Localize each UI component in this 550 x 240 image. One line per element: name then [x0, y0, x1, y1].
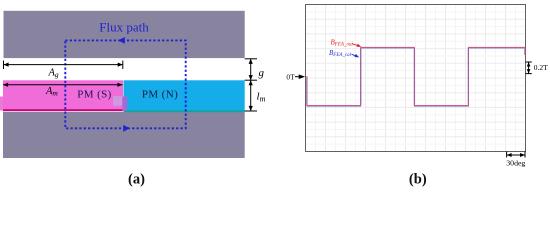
Ag dimension arrow [4, 61, 123, 70]
svg-text:30deg: 30deg [506, 158, 525, 167]
svg-text:g: g [259, 67, 265, 79]
0.2T ticks [526, 62, 532, 74]
PM (S) bottom edge line [3, 109, 123, 111]
plot grid [306, 5, 526, 152]
0.2T arrow [528, 62, 530, 74]
stator top block [4, 11, 245, 58]
plot frame [306, 5, 526, 152]
PM (N) bottom edge line [124, 110, 245, 112]
svg-text:0T: 0T [286, 72, 295, 81]
waveform vertical-edge blend overlay [307, 49, 469, 105]
svg-text:Ag: Ag [48, 67, 59, 79]
FEA waveform (red) [307, 47, 525, 105]
30deg ticks [507, 152, 525, 158]
Am dimension arrow [3, 84, 123, 86]
30deg arrow [507, 154, 525, 156]
svg-text:PM (S): PM (S) [77, 88, 112, 100]
stator bottom block [3, 112, 245, 158]
flux path dashed rectangle [65, 40, 185, 128]
PM interface purple strip [122, 97, 127, 111]
lm dimension arrow [250, 80, 252, 111]
B FEA_out arrow (red) [353, 44, 358, 46]
svg-text:(a): (a) [128, 172, 145, 188]
PM (S) left edge artifact sliver [0, 97, 3, 111]
calculated waveform (blue) [307, 48, 525, 106]
svg-text:Flux path: Flux path [99, 20, 149, 35]
lavender artifact patch [113, 96, 123, 106]
svg-text:BFEA_cal: BFEA_cal [329, 49, 352, 58]
flux path top arrowhead (left-pointing) [118, 37, 125, 44]
magnet PM (N) block [124, 80, 245, 110]
svg-text:0.2T: 0.2T [534, 63, 548, 72]
0T arrow [295, 76, 300, 78]
svg-text:(b): (b) [409, 172, 427, 188]
svg-text:lm: lm [257, 91, 266, 104]
flux path bottom arrowhead (right-pointing) [123, 125, 130, 132]
svg-text:PM (N): PM (N) [142, 89, 178, 101]
air gap g dimension ticks [245, 59, 257, 111]
B FEA_cal arrow (blue) [352, 54, 356, 56]
magnet PM (S) block [3, 80, 123, 110]
svg-text:BFEA_out: BFEA_out [331, 39, 354, 48]
air gap g dimension arrow [250, 59, 252, 80]
